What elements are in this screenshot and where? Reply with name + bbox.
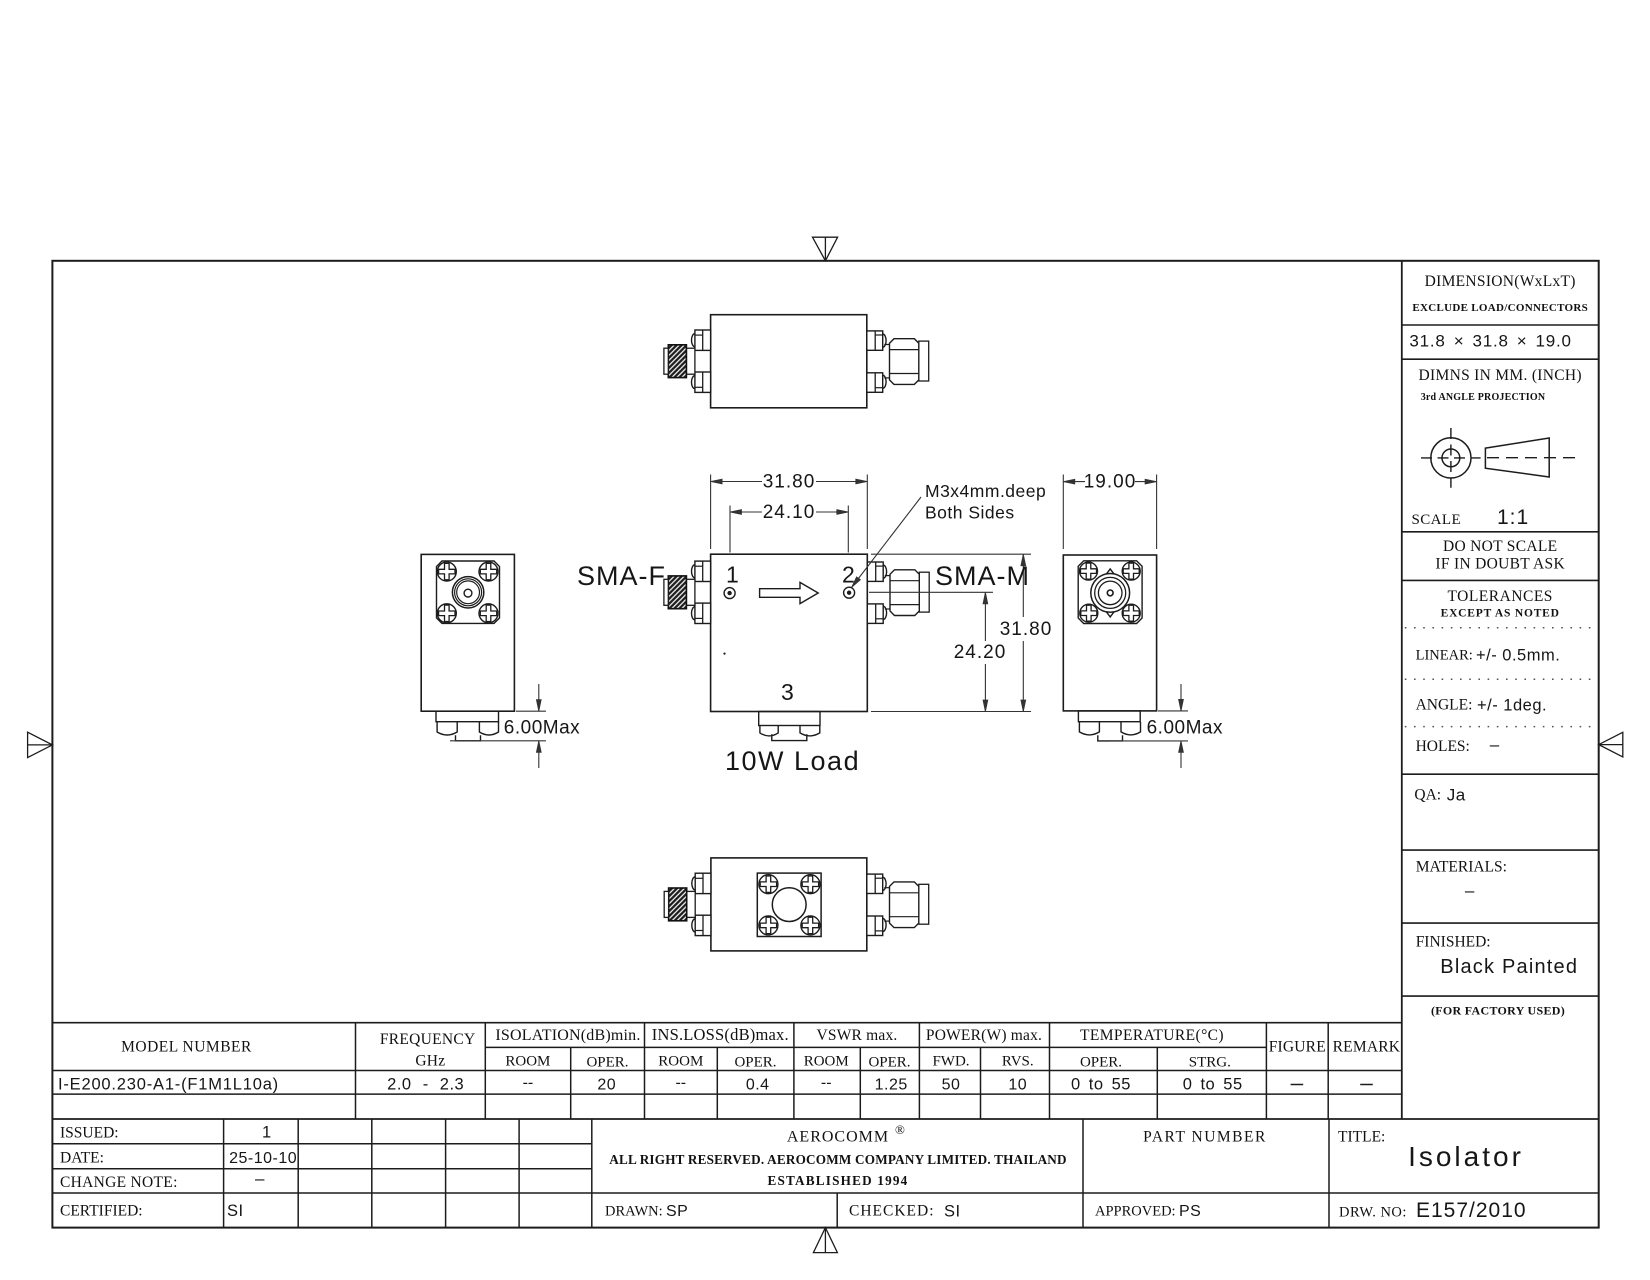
svg-text:DO NOT SCALE: DO NOT SCALE — [1443, 538, 1557, 555]
svg-text:EXCLUDE LOAD/CONNECTORS: EXCLUDE LOAD/CONNECTORS — [1412, 302, 1588, 314]
svg-text:SMA-M: SMA-M — [935, 561, 1030, 591]
svg-text:10: 10 — [1008, 1077, 1027, 1094]
svg-text:POWER(W) max.: POWER(W) max. — [926, 1027, 1042, 1044]
svg-text:HOLES:: HOLES: — [1416, 738, 1470, 755]
svg-text:DIMENSION(WxLxT): DIMENSION(WxLxT) — [1425, 273, 1576, 290]
svg-text:–: – — [255, 1169, 265, 1188]
svg-text:TEMPERATURE(°C): TEMPERATURE(°C) — [1080, 1027, 1224, 1044]
svg-text:RVS.: RVS. — [1002, 1054, 1034, 1070]
svg-text:–: – — [1465, 881, 1475, 900]
svg-text:DRAWN:: DRAWN: — [605, 1204, 663, 1220]
svg-text:SCALE: SCALE — [1412, 512, 1462, 528]
svg-text:1:1: 1:1 — [1497, 506, 1529, 529]
svg-text:TITLE:: TITLE: — [1338, 1129, 1385, 1146]
svg-text:EXCEPT AS NOTED: EXCEPT AS NOTED — [1441, 608, 1560, 620]
svg-text:0.4: 0.4 — [746, 1077, 770, 1094]
svg-text:LINEAR:: LINEAR: — [1416, 648, 1473, 664]
svg-text:SI: SI — [227, 1202, 244, 1220]
svg-text:PS: PS — [1179, 1203, 1201, 1220]
svg-text:FWD.: FWD. — [932, 1054, 969, 1070]
svg-text:MATERIALS:: MATERIALS: — [1416, 859, 1507, 876]
svg-text:Black Painted: Black Painted — [1440, 956, 1578, 978]
svg-text:(FOR FACTORY USED): (FOR FACTORY USED) — [1431, 1004, 1565, 1018]
svg-text:INS.LOSS(dB)max.: INS.LOSS(dB)max. — [652, 1025, 789, 1044]
svg-text:3rd ANGLE PROJECTION: 3rd ANGLE PROJECTION — [1421, 392, 1546, 403]
svg-text:REMARK: REMARK — [1333, 1039, 1401, 1056]
svg-text:--: -- — [821, 1075, 832, 1092]
svg-text:31.8 × 31.8 × 19.0: 31.8 × 31.8 × 19.0 — [1409, 332, 1571, 351]
svg-text:AEROCOMM: AEROCOMM — [787, 1129, 889, 1146]
svg-text:+/- 1deg.: +/- 1deg. — [1477, 697, 1547, 715]
svg-text:2.0 - 2.3: 2.0 - 2.3 — [387, 1076, 464, 1094]
svg-text:DIMNS IN MM. (INCH): DIMNS IN MM. (INCH) — [1419, 367, 1582, 384]
svg-text:0 to 55: 0 to 55 — [1071, 1076, 1131, 1094]
svg-text:20: 20 — [597, 1077, 616, 1094]
svg-text:M3x4mm.deep: M3x4mm.deep — [925, 481, 1046, 501]
svg-text:CHANGE NOTE:: CHANGE NOTE: — [60, 1174, 178, 1191]
svg-text:Isolator: Isolator — [1408, 1141, 1524, 1172]
svg-text:OPER.: OPER. — [734, 1055, 776, 1071]
svg-text:QA:: QA: — [1414, 787, 1441, 804]
svg-text:--: -- — [523, 1075, 534, 1092]
svg-text:1.25: 1.25 — [875, 1077, 908, 1094]
svg-text:CERTIFIED:: CERTIFIED: — [60, 1203, 143, 1220]
svg-text:FREQUENCY: FREQUENCY — [380, 1031, 476, 1048]
svg-text:6.00Max: 6.00Max — [504, 718, 580, 739]
svg-text:E157/2010: E157/2010 — [1416, 1199, 1527, 1222]
svg-text:SP: SP — [666, 1203, 688, 1220]
svg-text:ROOM: ROOM — [658, 1054, 703, 1070]
svg-text:OPER.: OPER. — [586, 1055, 628, 1071]
svg-text:OPER.: OPER. — [868, 1055, 910, 1071]
svg-text:1: 1 — [262, 1124, 271, 1142]
svg-text:Ja: Ja — [1447, 786, 1466, 805]
svg-text:--: -- — [675, 1075, 686, 1092]
svg-text:GHz: GHz — [415, 1053, 445, 1070]
svg-text:19.00: 19.00 — [1084, 472, 1137, 493]
svg-text:0 to 55: 0 to 55 — [1183, 1076, 1243, 1094]
svg-text:I-E200.230-A1-(F1M1L10a): I-E200.230-A1-(F1M1L10a) — [58, 1076, 279, 1094]
svg-text:ANGLE:: ANGLE: — [1416, 697, 1473, 714]
svg-text:ROOM: ROOM — [505, 1054, 550, 1070]
svg-text:10W Load: 10W Load — [725, 746, 860, 776]
svg-text:+/- 0.5mm.: +/- 0.5mm. — [1476, 647, 1560, 665]
svg-text:CHECKED:: CHECKED: — [849, 1203, 935, 1220]
svg-text:–: – — [1490, 735, 1500, 754]
svg-text:SMA-F: SMA-F — [577, 561, 666, 591]
svg-text:6.00Max: 6.00Max — [1147, 718, 1223, 739]
svg-text:2: 2 — [842, 562, 855, 588]
svg-text:24.10: 24.10 — [763, 502, 816, 523]
svg-text:APPROVED:: APPROVED: — [1095, 1204, 1176, 1220]
svg-text:ISSUED:: ISSUED: — [60, 1125, 119, 1142]
svg-text:TOLERANCES: TOLERANCES — [1447, 588, 1552, 605]
svg-text:25-10-10: 25-10-10 — [229, 1150, 297, 1167]
svg-text:31.80: 31.80 — [1000, 619, 1053, 640]
svg-text:OPER.: OPER. — [1080, 1055, 1122, 1071]
svg-text:FIGURE: FIGURE — [1269, 1039, 1326, 1056]
svg-text:IF IN DOUBT ASK: IF IN DOUBT ASK — [1435, 556, 1565, 573]
svg-text:SI: SI — [944, 1203, 961, 1221]
svg-text:1: 1 — [726, 562, 739, 588]
svg-text:DRW. NO:: DRW. NO: — [1339, 1205, 1407, 1221]
svg-text:PART NUMBER: PART NUMBER — [1143, 1129, 1267, 1146]
svg-text:50: 50 — [942, 1077, 961, 1094]
svg-text:3: 3 — [781, 679, 794, 705]
svg-text:FINISHED:: FINISHED: — [1416, 934, 1491, 951]
svg-text:MODEL NUMBER: MODEL NUMBER — [121, 1039, 252, 1056]
svg-text:®: ® — [895, 1122, 905, 1137]
svg-text:31.80: 31.80 — [763, 472, 816, 493]
svg-text:24.20: 24.20 — [954, 642, 1007, 663]
svg-text:ESTABLISHED 1994: ESTABLISHED 1994 — [768, 1173, 909, 1188]
svg-text:VSWR max.: VSWR max. — [816, 1027, 897, 1044]
svg-text:ROOM: ROOM — [804, 1054, 849, 1070]
svg-text:ALL RIGHT RESERVED. AEROCO: ALL RIGHT RESERVED. AEROCOMM COMPANY LIM… — [609, 1152, 1067, 1167]
svg-text:DATE:: DATE: — [60, 1150, 104, 1167]
svg-text:STRG.: STRG. — [1189, 1055, 1231, 1071]
svg-text:Both Sides: Both Sides — [925, 503, 1015, 523]
svg-text:ISOLATION(dB)min.: ISOLATION(dB)min. — [495, 1027, 640, 1044]
